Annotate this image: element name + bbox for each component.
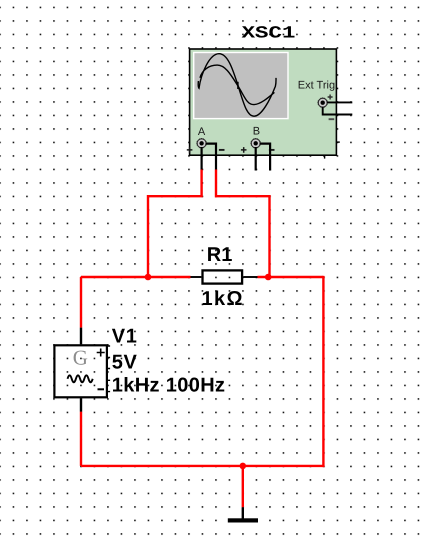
voltage source V1 bottom pin — [80, 398, 82, 411]
wire channel A plus pin — [201, 147, 203, 170]
svg-text:1kHz 100Hz: 1kHz 100Hz — [112, 375, 226, 397]
resistor R1 right lead — [243, 276, 257, 278]
wire V1 plus to R1 left (red) — [81, 276, 191, 278]
svg-text:G: G — [73, 346, 88, 370]
wire bottom return (red) — [81, 465, 323, 467]
svg-text:A: A — [198, 126, 206, 138]
junction node right of R1 — [265, 274, 272, 281]
resistor R1 body — [203, 270, 243, 283]
wire V1 top branch (red) — [80, 277, 82, 328]
svg-text:V1: V1 — [112, 325, 138, 347]
voltage source V1 top pin — [80, 328, 82, 345]
svg-text:XSC1: XSC1 — [242, 24, 296, 43]
wire Ext Trig plus stub — [327, 101, 352, 103]
ground — [228, 507, 258, 522]
svg-text:R1: R1 — [207, 244, 233, 266]
wire right branch down (red) — [322, 276, 324, 467]
wire ground drop (red) — [242, 466, 244, 507]
svg-text:1kΩ: 1kΩ — [202, 288, 243, 310]
wire R1 right to right branch (red) — [258, 276, 324, 278]
oscilloscope channel A terminal — [187, 138, 225, 153]
oscilloscope Ext Trig terminal — [317, 95, 334, 120]
wire channel A minus to node right (red) — [216, 170, 270, 278]
svg-text:B: B — [253, 125, 260, 137]
oscilloscope channel B terminal — [241, 138, 275, 153]
voltage source V1 body — [54, 345, 107, 397]
voltage source V1 sine squiggle — [68, 375, 93, 382]
wire V1 bottom branch (red) — [80, 412, 82, 466]
resistor R1 left lead — [191, 276, 202, 278]
oscilloscope XSC1 body — [190, 49, 337, 155]
wire channel A plus to node left (red) — [148, 170, 202, 278]
wire Ext Trig minus stub — [323, 107, 353, 115]
oscilloscope trace crossing glitch — [237, 82, 239, 89]
voltage source V1 plus mark — [97, 349, 105, 357]
voltage source V1 minus mark — [98, 388, 105, 390]
svg-text:5V: 5V — [112, 352, 138, 374]
junction node ground — [240, 463, 247, 470]
voltage source V1 body edge ticks — [108, 346, 110, 392]
oscilloscope edge tick right — [336, 141, 339, 143]
junction node left of R1 — [145, 274, 152, 281]
wire channel B minus pin stub — [260, 144, 271, 171]
wire channel B plus pin stub — [255, 147, 257, 171]
svg-text:Ext Trig: Ext Trig — [298, 79, 335, 91]
oscilloscope channel A waveform trace — [198, 54, 276, 116]
wire channel A minus pin — [206, 144, 217, 170]
oscilloscope edge tick bottom — [324, 155, 326, 158]
oscilloscope channel B waveform trace — [200, 65, 274, 105]
